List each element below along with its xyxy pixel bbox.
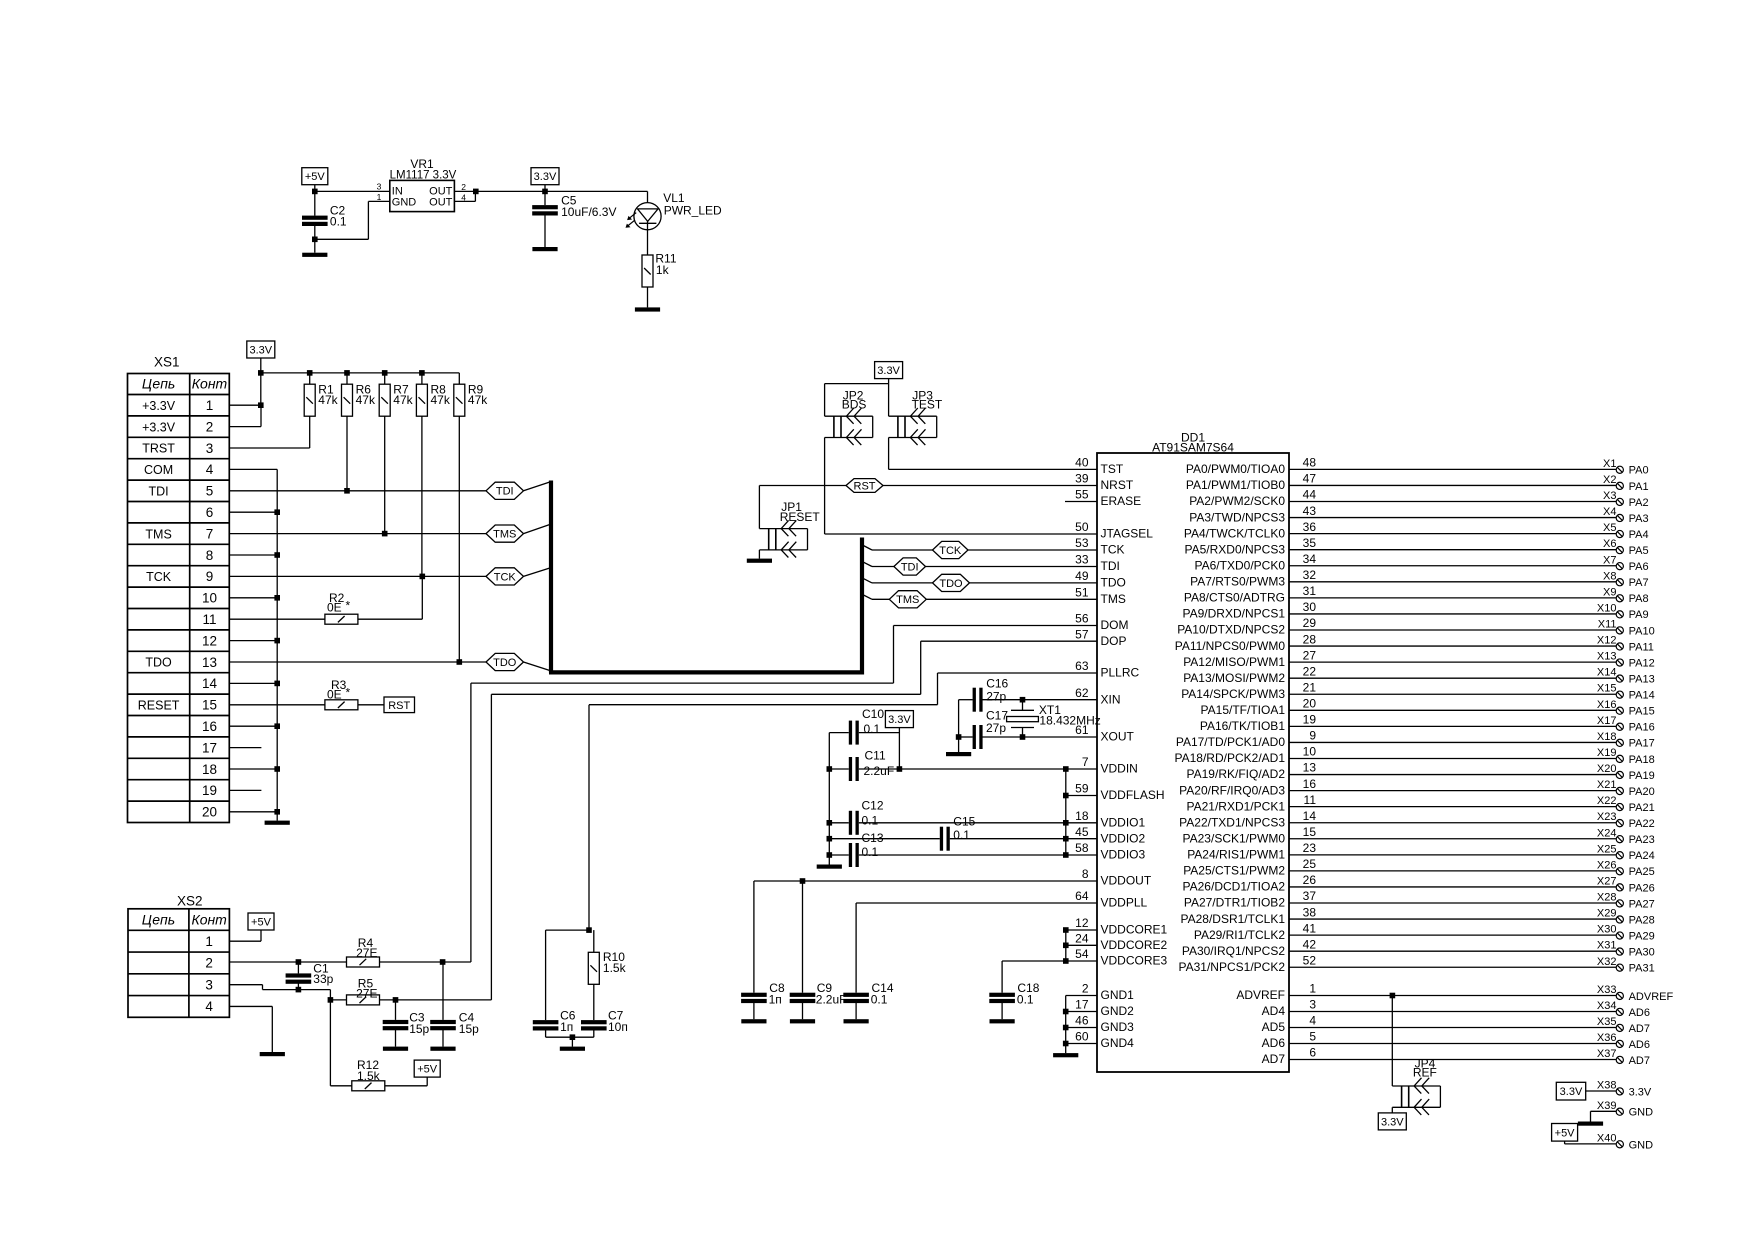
svg-text:OUT: OUT [429,197,453,209]
svg-text:X34: X34 [1597,1000,1617,1012]
svg-text:PA13: PA13 [1629,673,1655,685]
ground left VDD rail [817,865,842,869]
svg-text:C16: C16 [986,677,1008,691]
connector XS1 [128,355,230,823]
svg-text:47k: 47k [431,393,451,407]
svg-text:13: 13 [1303,761,1317,775]
wire 3.3V to jumpers [825,384,889,417]
pin 40 TST [1075,456,1124,477]
node TDO tag (DD1) [933,574,970,591]
pin 63 PLLRC [1075,659,1139,680]
svg-text:PA13/MOSI/PWM2: PA13/MOSI/PWM2 [1183,671,1285,685]
pin 11 PA21 / connector X22 [1187,793,1655,814]
svg-text:PA7: PA7 [1629,577,1649,589]
svg-text:GND4: GND4 [1101,1036,1135,1050]
pin 38 PA28 / connector X29 [1181,905,1655,926]
svg-text:*: * [346,686,351,700]
svg-text:PA3: PA3 [1629,513,1649,525]
svg-text:23: 23 [1303,841,1317,855]
resistor R5 27E [347,976,380,1005]
svg-text:RESET: RESET [138,699,180,713]
wire XIN net [959,697,1097,703]
svg-text:X23: X23 [1597,811,1617,823]
wire NRST [759,485,1097,487]
resistor R6 47k [342,373,376,416]
svg-text:X18: X18 [1597,731,1617,743]
wire TDI to DD1 [872,566,1097,568]
svg-text:26: 26 [1303,873,1317,887]
wire DOM net (XS2 pin2) [229,626,1097,965]
svg-text:27: 27 [1303,648,1317,662]
svg-text:TDI: TDI [149,485,169,499]
wire XOUT net [956,700,1097,752]
svg-text:27p: 27p [986,721,1006,735]
svg-text:27p: 27p [986,690,1006,704]
pin 58 VDDIO3 [1075,841,1145,862]
svg-text:PA4: PA4 [1629,529,1649,541]
svg-text:47k: 47k [356,393,376,407]
wire VR1 GND return [312,201,390,242]
svg-text:14: 14 [1303,809,1317,823]
node RST label box [384,697,415,713]
svg-text:PA21: PA21 [1629,802,1655,814]
svg-text:PA20/RF/IRQ0/AD3: PA20/RF/IRQ0/AD3 [1179,783,1285,797]
connector X40 GND [1565,1132,1654,1151]
pin 51 TMS [1075,586,1126,607]
svg-text:XOUT: XOUT [1101,730,1135,744]
svg-text:46: 46 [1075,1014,1089,1028]
resistor R7 47k [379,373,413,416]
svg-text:XS2: XS2 [177,893,203,908]
svg-text:54: 54 [1075,947,1089,961]
svg-text:X15: X15 [1597,683,1617,695]
ground C4 [430,1047,455,1051]
svg-text:PA26: PA26 [1629,882,1655,894]
svg-text:X5: X5 [1603,522,1616,534]
svg-text:PA18: PA18 [1629,754,1655,766]
svg-text:1: 1 [205,934,213,949]
power 3.3V (regulator output) [531,168,559,192]
capacitor C16 27p [973,677,1009,712]
pin 62 XIN [1075,686,1120,707]
svg-text:PA5/RXD0/NPCS3: PA5/RXD0/NPCS3 [1185,542,1286,556]
svg-text:PA14/SPCK/PWM3: PA14/SPCK/PWM3 [1181,687,1285,701]
svg-text:27E: 27E [356,986,377,1000]
svg-text:GND: GND [392,197,417,209]
svg-text:X25: X25 [1597,843,1617,855]
svg-text:10: 10 [1303,745,1317,759]
pin 1 ADVREF / connector X33 [1236,982,1673,1003]
svg-text:22: 22 [1303,664,1317,678]
svg-text:4: 4 [1309,1014,1316,1028]
resistor R2 0E [229,576,422,624]
svg-text:COM: COM [144,463,173,477]
svg-text:X16: X16 [1597,699,1617,711]
svg-text:X1: X1 [1603,458,1616,470]
svg-text:PA23/SCK1/PWM0: PA23/SCK1/PWM0 [1183,831,1286,845]
svg-text:X30: X30 [1597,924,1617,936]
svg-text:X19: X19 [1597,747,1617,759]
svg-text:37: 37 [1303,889,1317,903]
capacitor C2 [302,191,347,252]
svg-text:RST: RST [854,480,876,492]
wire VDDCORE3 to C18 [1002,961,1097,993]
pin 35 PA5 / connector X6 [1185,536,1649,557]
svg-text:PA25: PA25 [1629,866,1655,878]
svg-text:AD5: AD5 [1262,1020,1286,1034]
svg-text:+5V: +5V [305,171,326,183]
svg-text:GND1: GND1 [1101,988,1135,1002]
svg-text:2: 2 [1082,982,1089,996]
svg-text:49: 49 [1075,569,1089,583]
wire tag diagonals to bus [524,482,550,671]
power 3.3V (X38) [1556,1082,1585,1100]
svg-text:PA1/PWM1/TIOB0: PA1/PWM1/TIOB0 [1186,478,1285,492]
wire XS1 pin17 stub [229,747,261,749]
svg-text:PA6: PA6 [1629,561,1649,573]
svg-text:10uF/6.3V: 10uF/6.3V [561,205,616,219]
power 3.3V (XS1 pullups) [247,341,275,373]
svg-text:0E: 0E [327,688,342,702]
svg-text:X4: X4 [1603,506,1616,518]
svg-text:PA2/PWM2/SCK0: PA2/PWM2/SCK0 [1189,494,1285,508]
pin 36 PA4 / connector X5 [1184,520,1649,541]
pin 8 VDDOUT [1082,867,1152,888]
svg-text:X8: X8 [1603,570,1616,582]
svg-text:30: 30 [1303,600,1317,614]
svg-text:10п: 10п [608,1020,628,1034]
svg-text:TMS: TMS [145,527,171,541]
pin 3 AD4 / connector X34 [1262,998,1650,1019]
svg-text:3.3V: 3.3V [534,171,557,183]
svg-text:X36: X36 [1597,1032,1617,1044]
svg-text:3.3V: 3.3V [888,714,911,726]
svg-text:AT91SAM7S64: AT91SAM7S64 [1152,440,1234,454]
svg-text:ADVREF: ADVREF [1236,988,1285,1002]
jumper JP1 RESET [759,486,820,558]
wire TCK net [229,416,486,579]
svg-text:TCK: TCK [146,570,172,584]
svg-text:3: 3 [205,977,213,992]
svg-text:PA24: PA24 [1629,850,1655,862]
svg-text:X32: X32 [1597,956,1617,968]
ground C6/C7 [560,1047,585,1051]
svg-text:3.3V: 3.3V [877,365,900,377]
svg-text:1.5k: 1.5k [603,961,627,975]
pin 15 PA23 / connector X24 [1183,825,1655,846]
svg-text:PA30: PA30 [1629,947,1655,959]
svg-text:GND3: GND3 [1101,1020,1135,1034]
svg-text:50: 50 [1075,520,1089,534]
svg-text:21: 21 [1303,680,1317,694]
svg-text:2: 2 [206,419,214,434]
svg-text:61: 61 [1075,723,1089,737]
pin 20 PA15 / connector X16 [1201,697,1655,718]
pin 16 PA20 / connector X21 [1179,777,1655,798]
capacitor C11 2.2uF [829,749,1097,781]
svg-text:VDDIO1: VDDIO1 [1101,816,1146,830]
svg-text:27E: 27E [356,946,377,960]
pin 29 PA10 / connector X11 [1177,616,1655,637]
wire TCK to DD1 [872,549,1097,551]
capacitor C5 [532,191,616,247]
svg-text:TDI: TDI [901,561,919,573]
svg-text:PA17/TD/PCK1/AD0: PA17/TD/PCK1/AD0 [1176,735,1285,749]
svg-text:X40: X40 [1597,1132,1617,1144]
svg-text:PA17: PA17 [1629,738,1655,750]
svg-text:PA7/RTS0/PWM3: PA7/RTS0/PWM3 [1190,575,1285,589]
crystal XT1 18.432MHz [1007,700,1101,737]
svg-text:PA22/TXD1/NPCS3: PA22/TXD1/NPCS3 [1179,815,1285,829]
svg-text:X12: X12 [1597,635,1617,647]
wire TMS to DD1 [872,598,1097,600]
svg-text:32: 32 [1303,568,1317,582]
pin 12 VDDCORE1 [1075,916,1167,937]
svg-text:AD6: AD6 [1262,1036,1286,1050]
svg-text:PA24/RIS1/PWM1: PA24/RIS1/PWM1 [1187,848,1285,862]
wire C6/C7 ground rail [546,1034,594,1046]
pin 49 TDO [1075,569,1126,590]
resistor R3 0E [229,678,384,710]
svg-text:AD6: AD6 [1629,1039,1650,1051]
svg-text:47k: 47k [393,393,413,407]
node TMS tag [486,525,524,542]
svg-text:PA6/TXD0/PCK0: PA6/TXD0/PCK0 [1195,558,1286,572]
svg-text:57: 57 [1075,627,1089,641]
svg-text:AD7: AD7 [1262,1052,1286,1066]
pin 5 AD6 / connector X36 [1262,1030,1650,1051]
ground DD1 [1053,1053,1078,1057]
svg-text:ADVREF: ADVREF [1629,991,1674,1003]
svg-text:TST: TST [1101,462,1124,476]
ground C18 [990,1019,1015,1023]
svg-text:PA4/TWCK/TCLK0: PA4/TWCK/TCLK0 [1184,526,1285,540]
wire 3.3V rail [258,370,459,376]
svg-text:PA28/DSR1/TCLK1: PA28/DSR1/TCLK1 [1181,912,1286,926]
svg-text:8: 8 [206,548,214,563]
svg-text:X33: X33 [1597,984,1617,996]
svg-text:X27: X27 [1597,875,1617,887]
resistor R8 47k [416,373,450,416]
ground C2 [302,253,327,257]
svg-text:PA25/CTS1/PWM2: PA25/CTS1/PWM2 [1183,864,1285,878]
capacitor C10 0.1 [829,707,899,745]
svg-text:JTAGSEL: JTAGSEL [1101,527,1154,541]
svg-text:5: 5 [1309,1030,1316,1044]
svg-text:RST: RST [388,700,410,712]
svg-text:15p: 15p [409,1022,429,1036]
svg-text:C13: C13 [862,831,884,845]
svg-text:X39: X39 [1597,1100,1617,1112]
svg-text:TCK: TCK [1101,543,1125,557]
svg-text:TDO: TDO [1101,576,1126,590]
svg-text:PA27/DTR1/TIOB2: PA27/DTR1/TIOB2 [1184,896,1285,910]
svg-text:X17: X17 [1597,715,1617,727]
jumper JP4 REF [1392,996,1440,1115]
pin 13 PA19 / connector X20 [1187,761,1655,782]
pin 18 VDDIO1 [1075,809,1145,830]
jumper JP2 BDS [825,389,873,445]
svg-text:11: 11 [202,612,216,627]
svg-text:X6: X6 [1603,538,1616,550]
pin 52 PA31 / connector X32 [1179,953,1655,974]
svg-text:PA1: PA1 [1629,481,1649,493]
svg-text:0.1: 0.1 [862,845,879,859]
wire bus diagonals to DD1 [861,544,873,599]
pin 64 VDDPLL [1075,889,1147,910]
svg-text:X31: X31 [1597,940,1617,952]
svg-text:53: 53 [1075,536,1089,550]
svg-text:PA0/PWM0/TIOA0: PA0/PWM0/TIOA0 [1186,462,1285,476]
svg-text:3: 3 [1309,998,1316,1012]
ground C3 [383,1047,408,1051]
svg-text:PA16/TK/TIOB1: PA16/TK/TIOB1 [1200,719,1285,733]
capacitor C15 0.1 [829,815,1097,851]
svg-text:18: 18 [1075,809,1089,823]
svg-text:0.1: 0.1 [862,813,879,827]
svg-text:GND: GND [1629,1107,1654,1119]
svg-text:AD7: AD7 [1629,1055,1650,1067]
wire VR1 OUT [454,189,647,202]
svg-text:1.5k: 1.5k [357,1069,381,1083]
svg-text:6: 6 [1309,1046,1316,1060]
svg-text:GND2: GND2 [1101,1004,1135,1018]
svg-text:PA12: PA12 [1629,657,1655,669]
svg-text:8: 8 [1082,867,1089,881]
svg-text:2: 2 [205,956,213,971]
resistor R4 27E [347,936,380,967]
wire COM rail [229,469,280,814]
pin 57 DOP [1075,627,1126,648]
power +5V (R12) [414,1060,440,1077]
ground JP1 [747,550,772,563]
svg-text:38: 38 [1303,905,1317,919]
resistor R11 1k [642,230,677,308]
ground crystal [946,752,971,756]
svg-text:14: 14 [202,676,218,691]
IC DD1 AT91SAM7S64 [1097,430,1289,1072]
pin 7 VDDIN [1082,755,1138,776]
svg-text:10: 10 [202,591,217,606]
svg-text:58: 58 [1075,841,1089,855]
svg-text:47k: 47k [318,393,338,407]
svg-text:TDO: TDO [939,578,963,590]
svg-text:Конт: Конт [192,376,228,392]
svg-text:24: 24 [1075,932,1089,946]
svg-text:+3.3V: +3.3V [142,399,176,413]
svg-text:C15: C15 [953,815,975,829]
capacitor C6 1n [533,930,589,1037]
ground XS2 [260,1052,285,1056]
svg-text:Конт: Конт [191,911,227,927]
node TDI tag [486,482,524,499]
power +5V (X40) [1552,1124,1578,1142]
svg-text:PA14: PA14 [1629,690,1655,702]
svg-text:18.432MHz: 18.432MHz [1039,713,1100,727]
svg-text:20: 20 [1303,697,1317,711]
capacitor C8 1n [741,881,785,1019]
svg-text:3.3V: 3.3V [1560,1086,1583,1098]
wire VDDOUT [754,878,1097,884]
resistor R12 1.5k [330,1000,427,1091]
svg-text:AD7: AD7 [1629,1023,1650,1035]
wire left VDD rail [827,733,833,865]
wire TDO net [229,416,486,665]
svg-text:PA9: PA9 [1629,609,1649,621]
svg-text:56: 56 [1075,612,1089,626]
svg-text:3.3V: 3.3V [249,345,272,357]
svg-text:62: 62 [1075,686,1089,700]
svg-text:60: 60 [1075,1030,1089,1044]
jumper JP3 TEST [889,388,943,445]
svg-text:63: 63 [1075,659,1089,673]
svg-text:PA0: PA0 [1629,465,1649,477]
pin 53 TCK [1075,536,1124,557]
svg-text:+3.3V: +3.3V [142,420,176,434]
svg-text:1: 1 [1309,982,1316,996]
svg-text:1: 1 [377,192,382,202]
svg-text:3.3V: 3.3V [1629,1086,1652,1098]
svg-text:PA21/RXD1/PCK1: PA21/RXD1/PCK1 [1187,799,1286,813]
svg-text:1п: 1п [560,1020,573,1034]
svg-text:16: 16 [202,719,217,734]
svg-text:17: 17 [202,740,217,755]
svg-text:6: 6 [206,505,214,520]
svg-text:PA23: PA23 [1629,834,1655,846]
wire TMS net [229,416,486,536]
svg-text:PA15/TF/TIOA1: PA15/TF/TIOA1 [1201,703,1286,717]
pin 46 GND3 [1075,1014,1134,1035]
ground R11 [635,307,660,311]
node TCK tag [486,568,524,585]
wire PLLRC net [586,673,1097,933]
svg-text:4: 4 [205,999,213,1014]
svg-text:REF: REF [1413,1066,1437,1080]
svg-text:TCK: TCK [939,545,962,557]
svg-text:X13: X13 [1597,651,1617,663]
svg-text:51: 51 [1075,586,1089,600]
svg-text:TDO: TDO [493,657,517,669]
svg-text:PA18/RD/PCK2/AD1: PA18/RD/PCK2/AD1 [1175,751,1286,765]
svg-text:2.2uF: 2.2uF [816,992,847,1006]
resistor R10 1.5k [588,930,626,1020]
svg-text:PA29/RI1/TCLK2: PA29/RI1/TCLK2 [1194,928,1285,942]
resistor R9 47k [454,373,488,416]
svg-text:X28: X28 [1597,892,1617,904]
svg-text:C11: C11 [865,749,886,763]
svg-text:48: 48 [1303,456,1317,470]
svg-text:TDI: TDI [496,486,514,498]
svg-text:PA2: PA2 [1629,497,1649,509]
power +5V (XS2 pin1) [248,913,274,930]
svg-text:VDDCORE1: VDDCORE1 [1101,923,1168,937]
svg-text:DOM: DOM [1101,618,1129,632]
wire TRST pin3 to R1 [229,416,309,448]
svg-text:X35: X35 [1597,1016,1617,1028]
svg-text:X21: X21 [1597,779,1617,791]
svg-text:PA15: PA15 [1629,706,1655,718]
capacitor C4 15p [430,962,479,1047]
svg-text:PA29: PA29 [1629,930,1655,942]
connector XS2 [128,893,229,1017]
svg-text:PA11/NPCS0/PWM0: PA11/NPCS0/PWM0 [1175,639,1286,653]
pin 22 PA13 / connector X14 [1183,664,1655,685]
svg-text:11: 11 [1304,793,1317,807]
svg-text:X20: X20 [1597,763,1617,775]
svg-text:12: 12 [202,633,217,648]
svg-text:18: 18 [202,762,217,777]
svg-text:VDDOUT: VDDOUT [1101,874,1152,888]
